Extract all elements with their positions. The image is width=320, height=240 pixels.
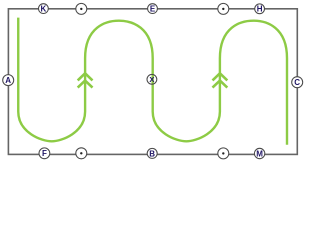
node A	[3, 75, 14, 86]
node K	[39, 4, 49, 14]
svg-text:B: B	[149, 149, 155, 158]
node dot top-left	[76, 3, 87, 14]
svg-text:M: M	[256, 149, 263, 158]
node M	[254, 148, 264, 158]
wire serpentine green path	[18, 18, 287, 145]
node F	[39, 148, 50, 159]
svg-text:C: C	[294, 78, 300, 87]
arrow chevrons left	[78, 73, 93, 87]
svg-text:H: H	[257, 5, 263, 14]
node dot bottom-right	[218, 148, 229, 159]
svg-text:E: E	[150, 5, 156, 14]
svg-text:F: F	[42, 149, 47, 158]
arrow chevrons right	[213, 73, 228, 87]
svg-text:X: X	[149, 75, 154, 84]
node C	[292, 77, 303, 88]
svg-text:K: K	[41, 5, 47, 14]
node H	[255, 4, 265, 14]
node X center	[147, 74, 157, 84]
svg-text:A: A	[5, 76, 11, 85]
node E	[148, 4, 158, 14]
node B	[147, 148, 157, 158]
node dot top-right	[218, 3, 229, 14]
border frame	[8, 9, 297, 155]
node dot bottom-left	[76, 148, 87, 159]
